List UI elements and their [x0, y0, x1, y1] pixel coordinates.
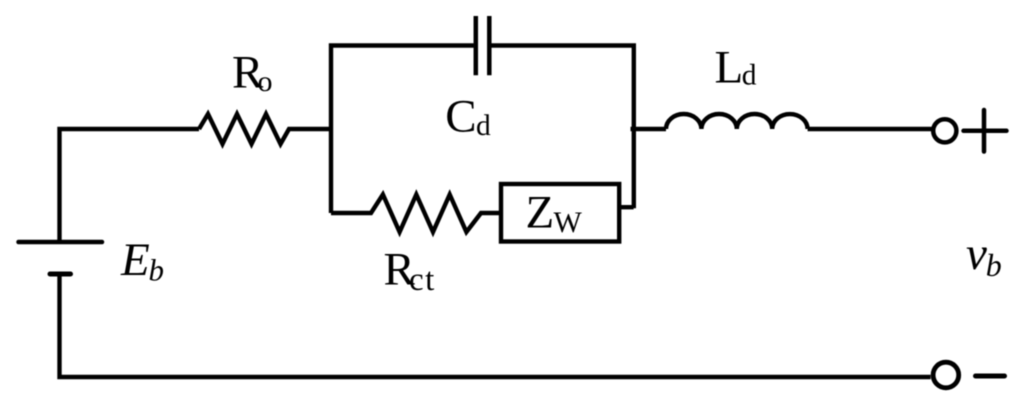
- svg-text:Z: Z: [526, 186, 555, 238]
- svg-text:b: b: [149, 253, 165, 288]
- svg-text:d: d: [742, 60, 757, 92]
- svg-text:ct: ct: [409, 262, 436, 298]
- svg-text:b: b: [986, 247, 1002, 283]
- svg-text:v: v: [966, 228, 987, 280]
- svg-text:C: C: [445, 91, 476, 143]
- svg-text:o: o: [258, 65, 273, 98]
- svg-text:W: W: [554, 206, 583, 239]
- svg-text:L: L: [715, 41, 744, 93]
- svg-text:d: d: [476, 110, 491, 142]
- svg-text:E: E: [120, 234, 150, 286]
